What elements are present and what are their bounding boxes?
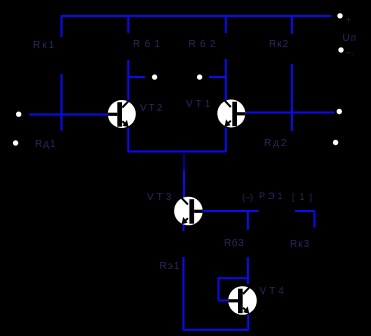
wire emitter rail to VT3 collector upper dim — [183, 152, 185, 172]
svg-text:VT1: VT1 — [186, 99, 213, 110]
svg-text:VT3: VT3 — [147, 192, 174, 203]
svg-text:Rк1: Rк1 — [33, 40, 56, 51]
svg-text:VT2: VT2 — [140, 103, 164, 114]
svg-text:–.: –. — [346, 47, 354, 57]
svg-text:VT4: VT4 — [260, 286, 287, 297]
node terminal C1 right — [197, 74, 202, 79]
wire VT4 base lead — [219, 300, 230, 302]
wire VT3 emitter upper lead — [183, 225, 185, 232]
transistor VT4 — [228, 286, 257, 315]
wire VT1 base lead — [245, 112, 335, 114]
node output terminal right — [337, 109, 342, 114]
svg-text:Rб2: Rб2 — [189, 38, 220, 50]
svg-text:+: + — [346, 15, 351, 25]
svg-text:Uп: Uп — [343, 33, 358, 44]
node terminal right lower — [333, 140, 338, 145]
wire branch to terminal C1 right — [209, 76, 226, 78]
svg-text:Rд1: Rд1 — [35, 139, 57, 150]
wire top supply rail — [62, 15, 332, 17]
svg-text:РЭ1: РЭ1 — [259, 191, 285, 201]
svg-text:(–): (–) — [242, 192, 253, 202]
wire VT4 base jog horizontal — [219, 277, 248, 279]
wire VT2 emitter lead — [127, 128, 129, 153]
node input terminal left upper — [16, 112, 21, 117]
wire VT4 emitter lead — [247, 315, 249, 331]
svg-text:Rд2: Rд2 — [264, 138, 289, 149]
svg-text:Rк3: Rк3 — [290, 239, 310, 250]
wire Rb2 upper lead — [225, 15, 227, 33]
wire R3 lower lead to VT1 base node — [291, 64, 293, 131]
transistor VT2 — [108, 100, 136, 128]
svg-text:Rб3: Rб3 — [224, 237, 244, 249]
wire VT4 base jog vertical — [218, 277, 220, 300]
wire VT3 base lead — [203, 210, 259, 212]
node supply terminal plus — [337, 13, 342, 18]
wire Rb1 upper lead — [127, 15, 129, 33]
wire R1 lower lead to VT2 base node — [61, 74, 63, 131]
node terminal C1 left — [152, 74, 157, 79]
wire R1 upper lead — [61, 15, 63, 37]
node input terminal left lower — [13, 140, 18, 145]
wire VT2 base lead — [29, 114, 109, 116]
transistor VT1 — [217, 100, 245, 128]
wire R3 upper lead — [291, 16, 293, 34]
wire emitter rail to VT3 collector — [183, 170, 185, 198]
wire Rb2 lower lead to VT1 collector — [225, 59, 227, 100]
wire Rb1 lower lead to VT2 collector — [127, 60, 129, 101]
wire bottom rail — [183, 329, 249, 331]
wire R7 lower lead — [247, 257, 249, 284]
wire branch to terminal C1 left — [128, 76, 145, 78]
svg-text:Rэ1: Rэ1 — [160, 261, 181, 272]
wire emitter rail — [128, 151, 226, 153]
wire R5 lower lead — [183, 257, 185, 330]
svg-text:Rб1: Rб1 — [133, 38, 164, 50]
wire R7 upper lead — [247, 211, 249, 230]
wire VT1 emitter lead — [225, 128, 227, 153]
transistor VT3 — [174, 197, 203, 226]
wire R6 lead — [314, 211, 316, 228]
svg-text:[1]: [1] — [292, 192, 317, 202]
svg-text:Rк2: Rк2 — [269, 39, 289, 50]
wire relay right lead — [295, 210, 315, 212]
node supply terminal minus — [338, 47, 343, 52]
